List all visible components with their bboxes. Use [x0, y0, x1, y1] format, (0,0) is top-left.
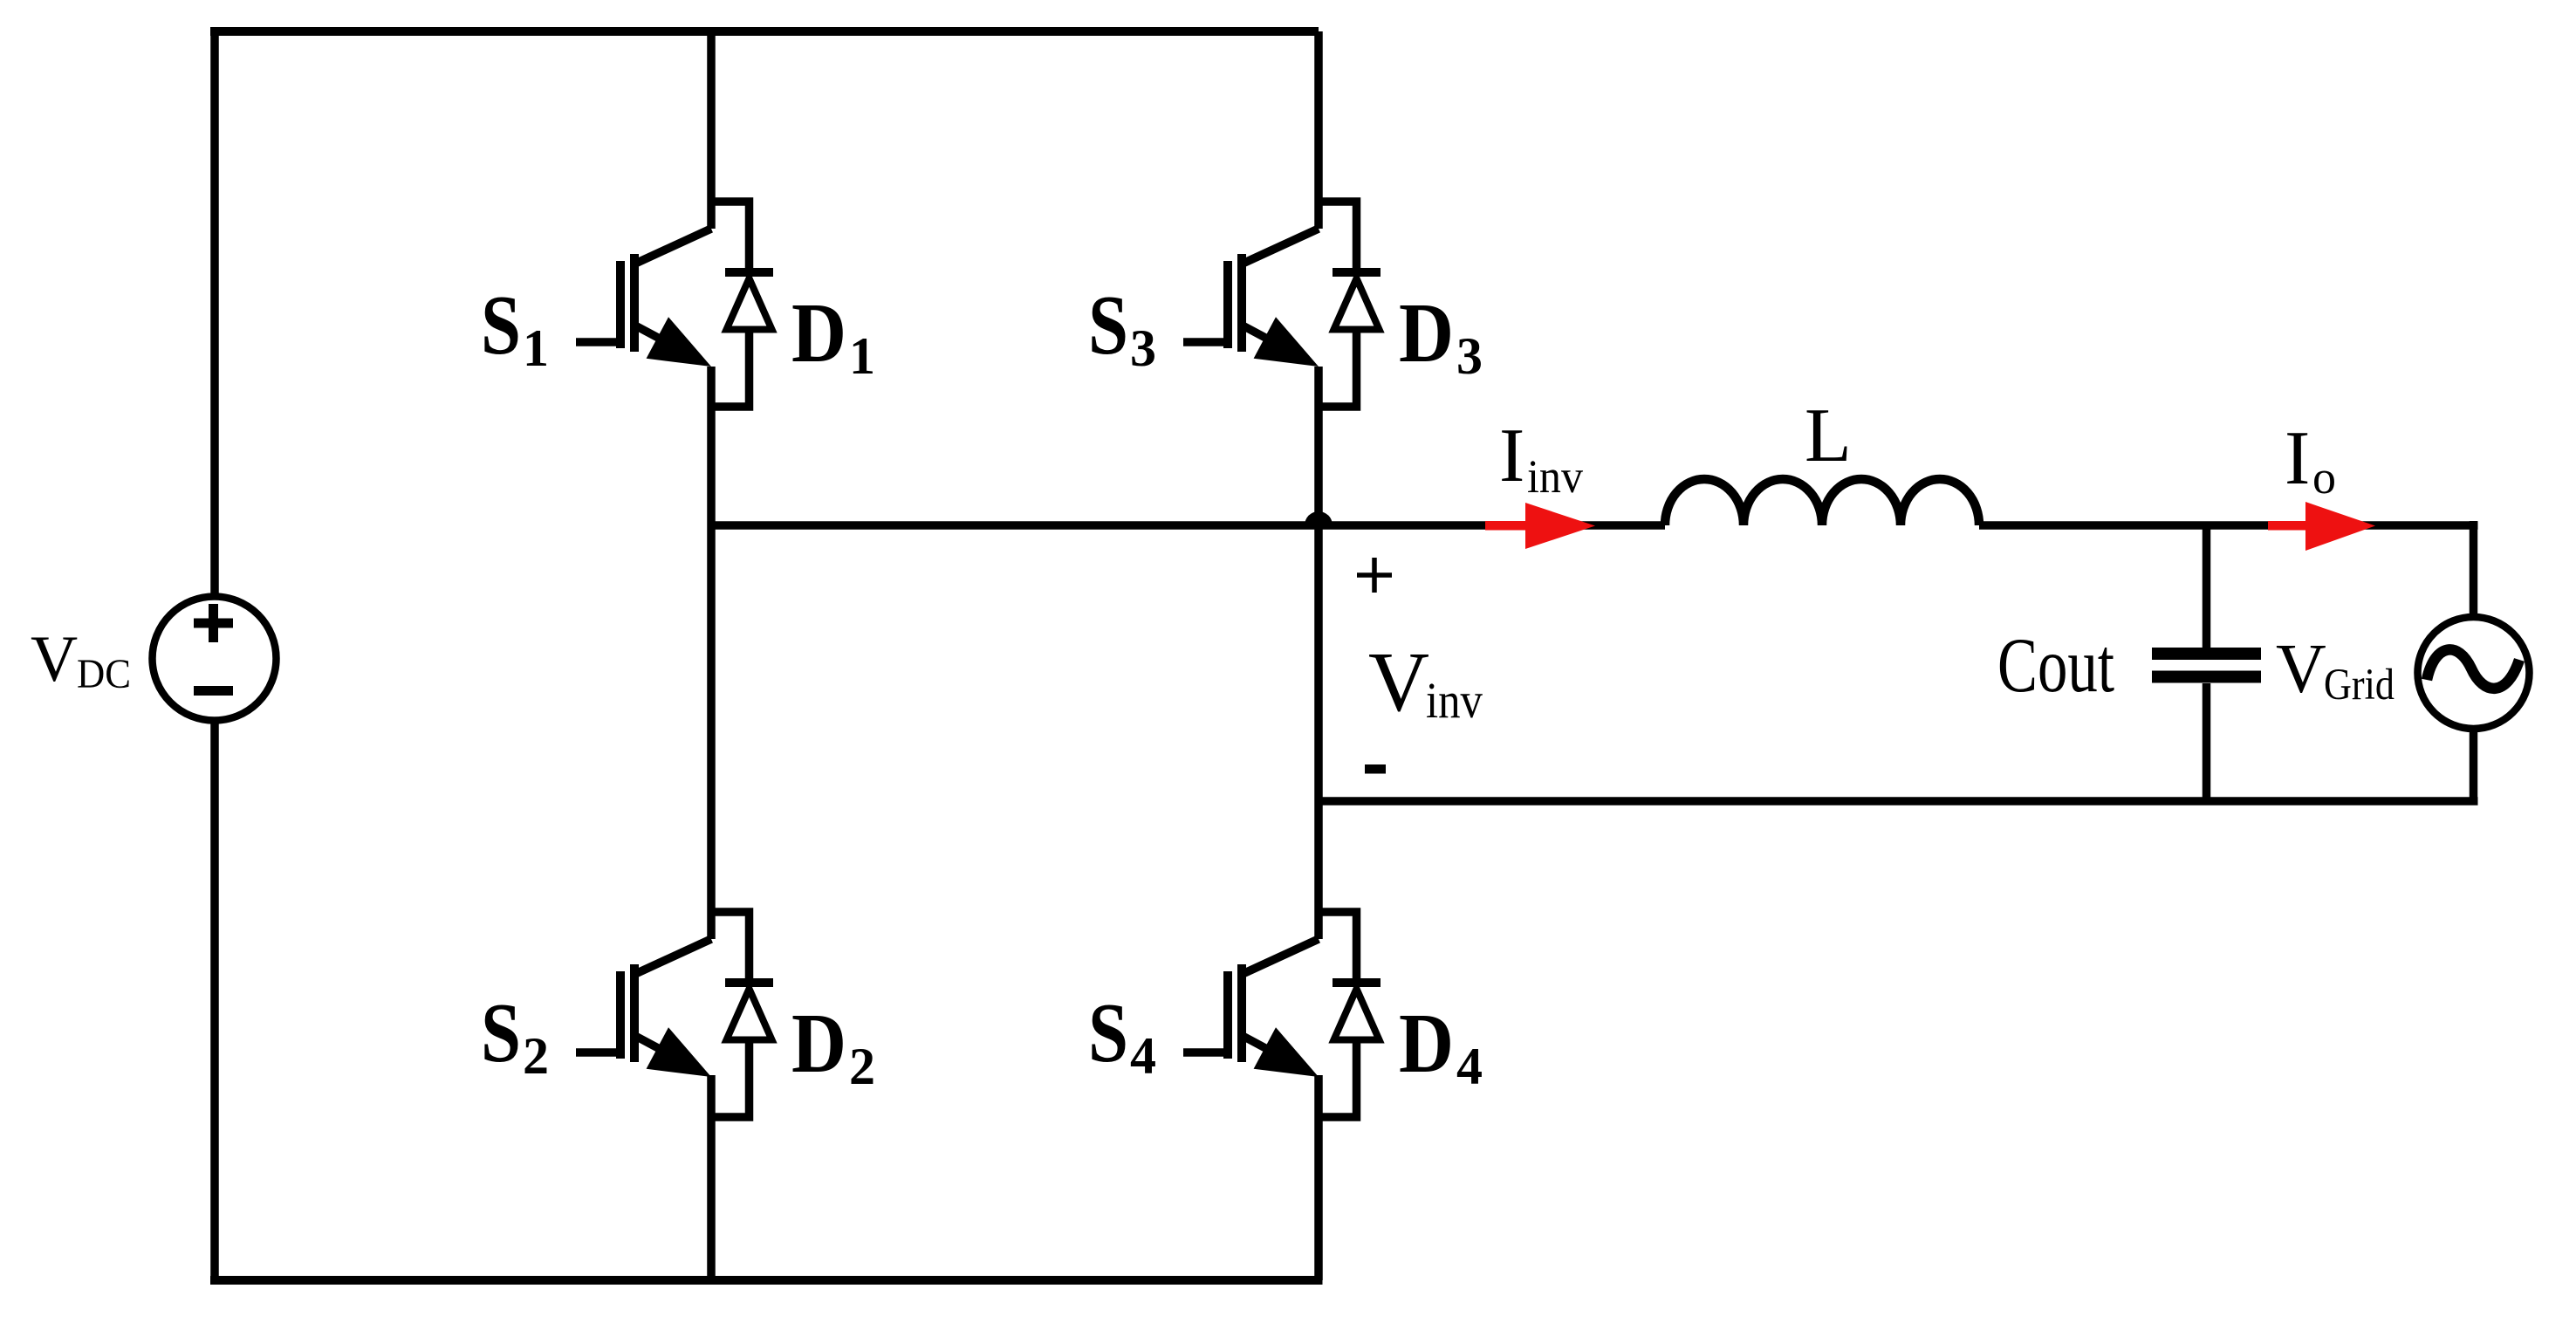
wire: node A rail from inductor to grid corner [1979, 521, 2478, 530]
svg-text:Grid: Grid [2324, 661, 2394, 709]
svg-text:L: L [1805, 394, 1852, 478]
svg-text:V: V [1368, 635, 1429, 729]
wire: leg 1 vertical (S2 emitter to bottom rail) [707, 1075, 716, 1280]
svg-text:1: 1 [849, 327, 875, 385]
svg-text:D: D [1399, 286, 1454, 380]
crossover hop over leg 2 [1305, 511, 1333, 525]
svg-text:4: 4 [1130, 1027, 1156, 1085]
transistor S4 (IGBT) [1183, 939, 1319, 1077]
wire: leg 1 vertical (S1 emitter to S2 collector) [707, 367, 716, 939]
svg-text:o: o [2312, 451, 2336, 504]
wire: leg 2 vertical (S3 top) [1314, 31, 1323, 229]
svg-text:inv: inv [1426, 672, 1483, 729]
svg-text:DC: DC [77, 651, 131, 697]
wire: right vertical to AC source [2470, 521, 2478, 617]
wire: bottom rail [210, 1276, 1323, 1285]
wire: left vertical (V_DC branch) [210, 27, 219, 597]
AC source V_Grid [2418, 617, 2530, 729]
svg-text:3: 3 [1456, 327, 1483, 385]
node V_inv minus sign [1365, 764, 1386, 774]
wire: leg 2 vertical (S3 emitter through node B to S4 collector) [1314, 367, 1323, 939]
transistor S1 (IGBT) [576, 229, 711, 367]
diode D1 [711, 202, 773, 407]
diode D3 [1319, 202, 1380, 407]
svg-text:I: I [2285, 416, 2310, 501]
diode D4 [1319, 912, 1380, 1117]
svg-text:S: S [1088, 278, 1128, 373]
wire: leg 1 vertical (S1 top) [707, 31, 716, 229]
svg-text:1: 1 [523, 319, 549, 377]
transistor S3 (IGBT) [1183, 229, 1319, 367]
wire: lower output rail node B [1319, 797, 2478, 805]
svg-text:inv: inv [1527, 450, 1583, 503]
svg-text:3: 3 [1130, 319, 1156, 377]
wire: midpoint rail node A (leg1 midpoint to inductor, hops over leg2) [711, 521, 1665, 530]
svg-text:D: D [1399, 997, 1454, 1091]
svg-text:V: V [31, 623, 78, 696]
wire: top rail [210, 27, 1319, 36]
capacitor Cout [2152, 525, 2261, 801]
svg-text:D: D [791, 286, 846, 380]
wire: leg 2 vertical (S4 emitter to bottom rail) [1314, 1075, 1323, 1280]
svg-text:2: 2 [523, 1027, 549, 1085]
svg-text:Cout: Cout [1997, 623, 2114, 709]
svg-text:S: S [1088, 986, 1128, 1080]
inductor L [1665, 479, 1979, 525]
svg-text:2: 2 [849, 1038, 875, 1095]
current arrow I_inv [1485, 503, 1595, 549]
current arrow I_o [2268, 502, 2375, 551]
node V_inv plus sign [1357, 558, 1392, 593]
diode D2 [711, 912, 773, 1117]
svg-text:D: D [791, 997, 846, 1091]
svg-text:I: I [1499, 414, 1524, 498]
voltage source V_DC [153, 597, 277, 721]
svg-text:4: 4 [1456, 1038, 1483, 1095]
transistor S2 (IGBT) [576, 939, 711, 1077]
svg-text:S: S [481, 278, 521, 373]
svg-text:S: S [481, 986, 521, 1080]
svg-text:V: V [2276, 631, 2326, 708]
